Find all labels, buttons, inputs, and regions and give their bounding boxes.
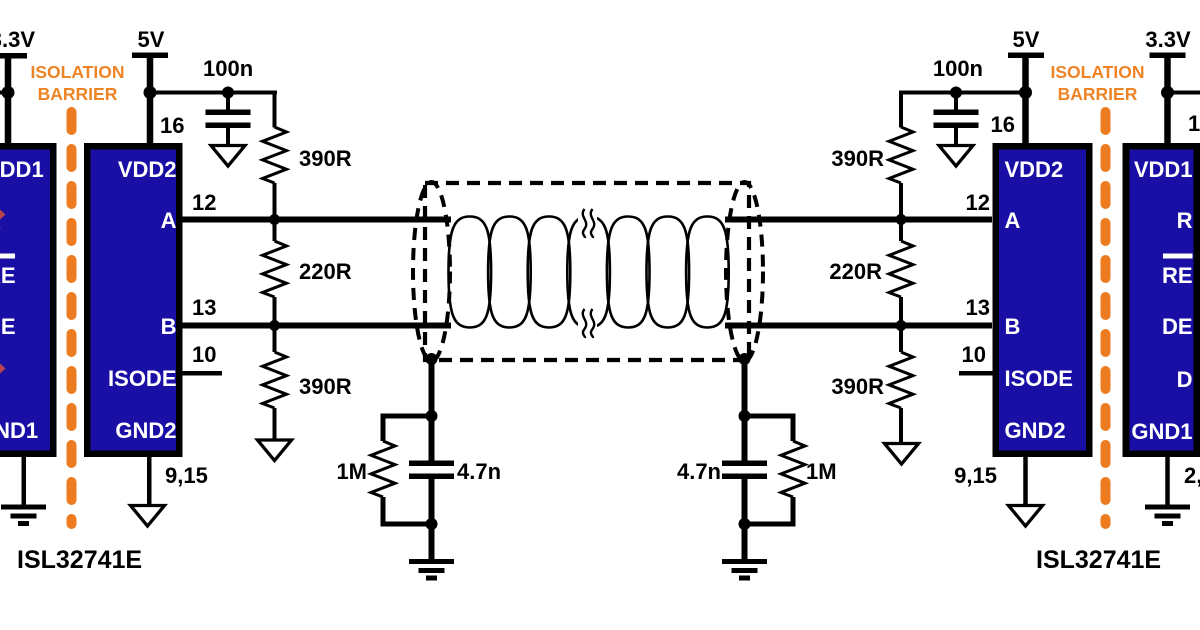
capacitor C 100n (right) [934,110,979,129]
signal ground under GND2 (left IC) [131,506,165,527]
node A / 390R / 220R (right) [896,214,907,225]
twisted-pair cable sheath (dashed rect) [425,183,749,360]
svg-text:16: 16 [991,112,1015,137]
node 100n tap (right) [950,87,962,99]
wire 5V to pin 16 VDD2 (right IC) [1022,57,1029,144]
svg-text:220R: 220R [299,259,352,284]
resistor R 1M (left) [371,441,395,497]
svg-text:BARRIER: BARRIER [1058,84,1138,104]
node 100n tap (left) [222,87,234,99]
red signal arrow fragment at R pin (left edge) [0,210,6,220]
pin 9,15 GND2 wire (right IC) [1023,457,1028,506]
wire junction to 100n cap (left) [226,93,230,111]
svg-text:9,15: 9,15 [954,463,997,488]
twisted pair loop 7 [686,217,729,328]
wire 100n cap to ground (left) [226,128,230,146]
node B / 220R / 390R (right) [896,320,907,331]
node RC top (right) [739,410,751,422]
svg-text:390R: 390R [831,146,884,171]
capacitor C 4.7n (right) [722,461,767,480]
svg-text:BARRIER: BARRIER [38,84,118,104]
svg-text:390R: 390R [299,146,352,171]
signal ground under 100n (left) [211,146,245,167]
svg-text:3.3V: 3.3V [0,27,35,52]
node cable shield (right) [739,353,751,365]
node A / 390R / 220R (left) [269,214,280,225]
resistor R 390R pull-up (right) [889,127,913,183]
line A (right segment) [725,217,992,223]
cable break gap (bottom) [578,305,597,341]
svg-text:DE: DE [1162,314,1193,339]
wire shield drain upper (left) [429,359,435,461]
line B (left segment) [177,323,451,329]
svg-text:100n: 100n [933,56,983,81]
svg-text:B: B [1005,314,1021,339]
wire RC branch bottom (right) [745,522,796,527]
svg-text:1M: 1M [336,459,367,484]
svg-text:16: 16 [160,113,184,138]
wire B to 390R pull-down (right) [899,329,903,353]
svg-text:10: 10 [192,342,216,367]
wire shield drain lower (left) [429,479,435,560]
wire 390R to ground (left) [273,408,277,440]
twisted pair loop 4 (with break) [567,217,610,328]
resistor R 220R termination (right) [889,241,913,297]
capacitor C 100n (left) [206,110,251,129]
cable break squiggle marks (top) [583,209,586,238]
svg-text:R: R [1177,208,1193,233]
node RC bottom (right) [739,518,751,530]
svg-text:13: 13 [966,295,990,320]
resistor R 1M (right) [781,441,805,497]
wire shield drain upper (right) [742,359,748,461]
earth ground cable shield (right) [722,559,767,581]
wire B to 390R pull-down (left) [273,329,277,353]
wire 3.3V to pin 1 VDD1 (right IC) [1164,57,1171,144]
wire 5V junction to 100n and 390R (right) [899,91,1026,95]
svg-text:GND1: GND1 [0,418,38,443]
svg-text:VDD2: VDD2 [118,157,177,182]
svg-text:9,15: 9,15 [165,463,208,488]
twisted pair loop 6 [647,217,690,328]
signal ground under 390R (right) [885,444,919,465]
wire shield drain lower (right) [742,479,748,560]
signal ground under 390R (left) [258,440,292,461]
pin 10 ISODE stub (left IC) [182,371,222,376]
svg-text:ISL32741E: ISL32741E [17,546,142,574]
wire RC branch bottom (left) [381,522,432,527]
svg-text:VDD1: VDD1 [0,157,44,182]
wire 390R to line A (left) [273,183,277,217]
node 5V junction (right) [1019,86,1032,99]
5V supply bar (left) [132,53,168,59]
RE overline (left IC, cut) [0,254,15,259]
red signal arrow fragment at D pin (left edge) [0,364,6,374]
resistor R 390R pull-up (left) [263,127,287,183]
svg-text:10: 10 [962,342,986,367]
wire RC branch top (right) [745,414,796,419]
svg-text:ISODE: ISODE [1005,366,1073,391]
svg-text:390R: 390R [831,374,884,399]
pin 2,8 GND1 wire (left IC) [22,457,27,505]
op-amp U1 left IC bus-side block (VDD2 A B ISODE GND2) [84,143,183,457]
svg-text:1M: 1M [806,459,837,484]
isolation barrier dashed line (left) [67,112,77,524]
svg-text:12: 12 [192,190,216,215]
svg-text:ISOLATION: ISOLATION [31,62,125,82]
svg-text:A: A [1005,208,1021,233]
svg-text:4.7n: 4.7n [457,459,501,484]
wire RC branch right lower [791,497,796,527]
signal ground under 100n (right) [939,146,973,167]
svg-text:RE: RE [1162,263,1193,288]
node cable shield (left) [426,353,438,365]
wire 5V to pin 16 VDD2 (left IC) [147,57,154,144]
line B (right segment) [725,323,992,329]
3.3V supply bar (left, cut at edge) [0,53,27,59]
wire 390R to ground (right) [899,408,903,444]
svg-text:ISOLATION: ISOLATION [1051,62,1145,82]
resistor R 390R pull-down (right) [889,352,913,408]
node RC top (left) [426,410,438,422]
svg-text:2,: 2, [1184,463,1200,488]
wire RC branch top (left) [381,414,432,419]
pin 9,15 GND2 wire (left IC) [147,457,152,506]
wire RC branch left upper [381,414,386,442]
svg-text:5V: 5V [138,27,165,52]
wire corner down to 390R (left) [273,91,277,128]
earth ground under GND1 (right IC) [1145,505,1190,527]
svg-text:100n: 100n [203,56,253,81]
cable break squiggle marks (bottom) [583,309,586,338]
resistor R 220R termination (left) [263,241,287,297]
cable break gap (top) [578,204,597,240]
svg-text:390R: 390R [299,374,352,399]
wire A to 220R (right) [899,223,903,242]
twisted pair loop 2 [488,217,531,328]
svg-text:GND2: GND2 [1005,418,1066,443]
RE overline (right IC) [1163,254,1193,259]
earth ground under GND1 (left IC) [1,505,46,527]
capacitor C 4.7n (left) [409,461,454,480]
svg-text:A: A [161,208,177,233]
svg-text:VDD2: VDD2 [1005,157,1064,182]
node 5V junction (left) [144,86,157,99]
wire RC branch left lower [381,497,386,527]
svg-text:B: B [161,314,177,339]
earth ground cable shield (left) [409,559,454,581]
node 3.3V junction (left) [2,86,15,99]
resistor R 390R pull-down (left) [263,352,287,408]
5V supply bar (right) [1008,53,1044,59]
svg-text:VDD1: VDD1 [1134,157,1193,182]
svg-text:RE: RE [0,263,16,288]
node B / 220R / 390R (left) [269,320,280,331]
svg-text:GND2: GND2 [115,418,176,443]
twisted pair loop 5 [607,217,650,328]
svg-text:1: 1 [1188,111,1200,136]
svg-text:5V: 5V [1013,27,1040,52]
wire stub to logic-side bypass (cut at left edge) [0,91,9,95]
pin 2,8 GND1 wire (right IC) [1165,457,1170,505]
svg-text:3.3V: 3.3V [1145,27,1191,52]
svg-text:12: 12 [966,190,990,215]
op-amp U1 left IC logic-side block (VDD1 R RE DE D GND1) [0,143,57,457]
wire RC branch right upper [791,414,796,442]
svg-text:ISL32741E: ISL32741E [1036,546,1161,574]
svg-text:GND1: GND1 [1131,419,1192,444]
wire 220R to line B (left) [273,297,277,323]
twisted pair loop 3 [528,217,571,328]
wire junction to 100n cap (right) [954,93,958,111]
cable end cross-section ellipse (left, dashed) [413,182,450,361]
svg-text:13: 13 [192,295,216,320]
svg-text:4.7n: 4.7n [677,459,721,484]
wire 220R to line B (right) [899,297,903,323]
isolation barrier dashed line (right) [1101,112,1111,524]
pin 10 ISODE stub (right IC) [959,371,993,376]
svg-text:DE: DE [0,314,16,339]
wire 100n cap to ground (right) [954,128,958,146]
wire A to 220R (left) [273,223,277,242]
wire stub to logic-side bypass (cut at right edge) [1168,91,1200,95]
wire 3.3V to pin 1 VDD1 (left IC) [5,57,12,144]
wire 390R to line A (right) [899,183,903,217]
wire 5V junction to 100n and 390R (left) [150,91,277,95]
signal ground under GND2 (right IC) [1009,506,1043,527]
op-amp U2 right IC bus-side block (VDD2 A B ISODE GND2) [993,143,1093,457]
svg-text:D: D [1177,367,1193,392]
3.3V supply bar (right) [1150,53,1186,59]
svg-text:ISODE: ISODE [108,366,176,391]
cable end cross-section ellipse (right, dashed) [726,182,763,361]
twisted pair loop 1 [449,217,492,328]
svg-text:220R: 220R [829,259,882,284]
line A (left segment) [177,217,451,223]
op-amp U2 right IC logic-side block (VDD1 R RE DE D GND1) [1123,143,1200,457]
wire corner down to 390R (right) [899,91,903,128]
node RC bottom (left) [426,518,438,530]
node 3.3V junction (right) [1161,86,1174,99]
